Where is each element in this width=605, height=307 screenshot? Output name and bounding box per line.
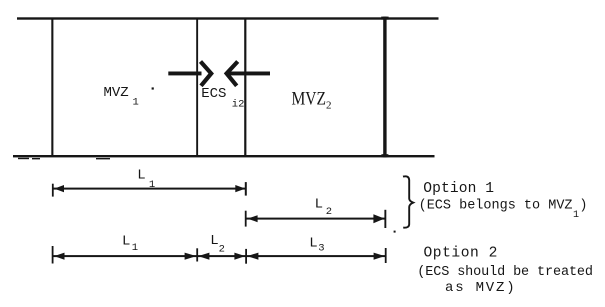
svg-text:1: 1	[133, 97, 139, 109]
wall bottom dash artifact 2	[32, 158, 40, 159]
wall bottom dash artifact 3	[96, 158, 110, 159]
dim row1 line	[53, 188, 246, 190]
dot artifact	[152, 87, 154, 89]
svg-text:2: 2	[326, 206, 332, 218]
partition V3 (ECS right wall)	[244, 18, 246, 156]
svg-text:1: 1	[132, 242, 138, 254]
dim row1 right arrowhead	[235, 185, 245, 192]
dim row1 left tick	[52, 184, 54, 197]
wall top	[17, 17, 439, 19]
dim row2 right tick	[384, 210, 386, 228]
dim row1 left arrowhead	[54, 185, 64, 192]
airflow arrow left shaft	[229, 72, 271, 76]
svg-text:2: 2	[219, 243, 225, 255]
dim row3 arrow after tick2 pointing left	[198, 253, 209, 260]
dim row3 tick 2	[196, 248, 198, 261]
wall right V4 (thick)	[383, 17, 386, 158]
dim row2 right arrowhead	[373, 214, 384, 223]
svg-text:Option 2: Option 2	[424, 246, 498, 262]
svg-text:1: 1	[149, 179, 155, 191]
svg-text:1: 1	[573, 210, 579, 221]
dim row2 left tick	[245, 211, 247, 227]
partition V2 (ECS left wall)	[196, 18, 198, 156]
dim row3 line	[53, 255, 386, 257]
svg-text:Option 1: Option 1	[423, 181, 494, 197]
svg-text:): )	[579, 198, 587, 213]
svg-text:(ECS belongs to MVZ: (ECS belongs to MVZ	[419, 198, 573, 213]
svg-text:MVZ: MVZ	[104, 85, 129, 101]
airflow arrow left head	[227, 62, 238, 86]
dim row1 right tick	[245, 182, 247, 196]
svg-text:L: L	[309, 235, 317, 251]
dim row3 tick 4	[385, 248, 387, 263]
svg-text:L: L	[210, 233, 218, 249]
dim row3 tick 3	[245, 249, 247, 264]
dim row3 arrow at tick1 pointing left	[54, 253, 64, 260]
brace for option 1	[403, 176, 413, 227]
wall bottom dash artifact 1	[18, 158, 29, 159]
wall bottom	[13, 155, 435, 157]
dim row3 arrow after tick3 pointing left	[247, 253, 258, 260]
dim row2 line	[246, 218, 385, 220]
airflow arrow right head	[201, 62, 212, 86]
brace dot artifact	[394, 231, 396, 233]
svg-text:2: 2	[326, 100, 332, 112]
dim row3 arrow before tick4 pointing right	[374, 253, 385, 260]
svg-text:L: L	[137, 167, 145, 183]
svg-text:as MVZ): as MVZ)	[445, 280, 516, 296]
svg-text:L: L	[122, 234, 130, 250]
svg-text:i2: i2	[232, 98, 245, 110]
dim row2 left arrowhead	[247, 215, 257, 222]
wall right V4 top cap	[381, 17, 388, 20]
dim row3 arrow before tick3 pointing right	[234, 253, 245, 260]
wall right V4 bottom cap	[381, 154, 388, 157]
svg-text:3: 3	[318, 242, 324, 254]
wall left V1	[51, 18, 53, 156]
dim row3 tick 1	[52, 246, 54, 264]
svg-text:(ECS should be treated: (ECS should be treated	[417, 265, 593, 280]
svg-text:L: L	[315, 196, 323, 212]
dim row3 arrow before tick2 pointing right	[185, 253, 197, 260]
svg-text:ECS: ECS	[201, 86, 226, 102]
svg-text:MVZ: MVZ	[292, 89, 327, 110]
airflow arrow right shaft	[168, 72, 201, 76]
